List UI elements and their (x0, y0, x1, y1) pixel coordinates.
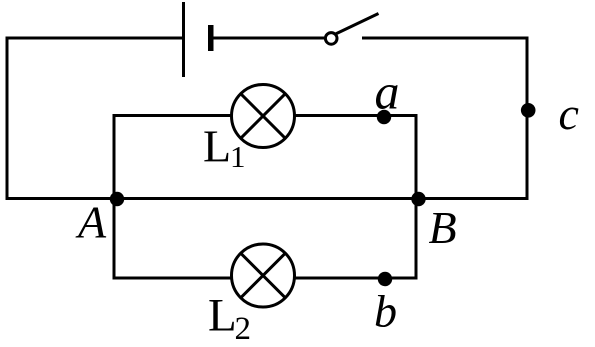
node B junction dot (411, 192, 425, 206)
switch pivot circle (325, 33, 337, 45)
wire: top branch horizontal right of L1 (280, 114, 418, 117)
wire: right vertical side (526, 37, 529, 201)
svg-text:B: B (429, 202, 457, 253)
wire: left vertical side (6, 37, 9, 201)
wire: top-left horizontal from left corner to battery (6, 37, 183, 40)
svg-text:L: L (208, 290, 237, 342)
svg-text:c: c (559, 88, 579, 139)
wire: top branch horizontal left of L1 (113, 114, 246, 117)
node a junction dot (377, 110, 391, 124)
wire: bottom branch right vertical (415, 199, 418, 280)
wire: bottom branch horizontal left of L2 (113, 277, 246, 280)
wire: bottom branch horizontal right of L2 (280, 277, 418, 280)
svg-text:L: L (203, 120, 231, 171)
switch lever arm (336, 14, 379, 35)
wire: switch to top-right corner (362, 37, 529, 40)
wire: main horizontal through A and B (6, 197, 529, 200)
svg-text:2: 2 (235, 311, 252, 347)
battery cell: long positive plate (182, 2, 185, 77)
svg-text:1: 1 (230, 139, 246, 174)
wire: top branch left vertical (113, 114, 116, 199)
wire: top branch right vertical (415, 114, 418, 199)
node b junction dot (378, 272, 392, 286)
lamp L1 (circle with X) (232, 85, 295, 148)
node A junction dot (110, 192, 124, 206)
svg-text:A: A (75, 196, 107, 247)
wire: battery to switch (213, 37, 325, 40)
wire: bottom branch left vertical (113, 199, 116, 280)
svg-text:a: a (375, 63, 400, 119)
lamp L2 (circle with X) (232, 244, 295, 307)
svg-text:b: b (374, 286, 397, 337)
battery cell: short thick negative plate (208, 25, 214, 51)
node c junction dot (521, 103, 536, 118)
